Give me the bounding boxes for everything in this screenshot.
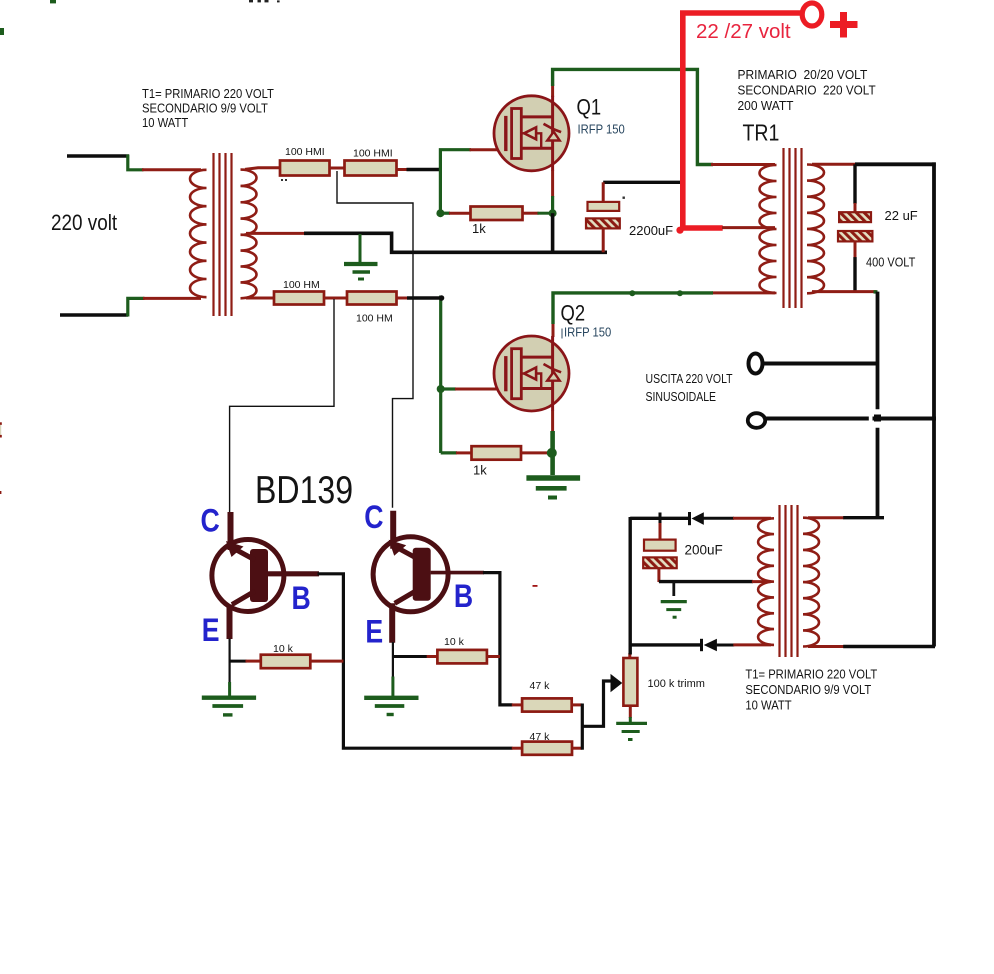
stray red dash — [533, 585, 538, 587]
wire T2 secondary bottom maroon — [808, 645, 844, 648]
note USCITA text — [646, 373, 733, 404]
capacitor C1 2200uF top wire black — [603, 181, 683, 184]
wire T2 primary bottom maroon — [733, 643, 771, 646]
svg-text:USCITA 220 VOLT: USCITA 220 VOLT — [646, 373, 733, 386]
wire input bottom black — [60, 313, 128, 317]
wire 22uF top black — [853, 164, 856, 204]
stray dot above cap — [623, 197, 625, 199]
wire TR1 primary top maroon — [711, 163, 775, 166]
svg-text:200uF: 200uF — [685, 543, 723, 558]
op mosfet Q1 symbol — [494, 96, 569, 171]
wire 22uF bottom black — [853, 257, 856, 292]
note T1 left text — [142, 86, 274, 130]
wire between R3 R4 — [324, 297, 347, 300]
svg-text:SECONDARIO 9/9 VOLT: SECONDARIO 9/9 VOLT — [142, 101, 268, 116]
wire Q4 base black — [483, 573, 513, 705]
svg-text:22 uF: 22 uF — [885, 208, 918, 223]
svg-text:T1= PRIMARIO 220 VOLT: T1= PRIMARIO 220 VOLT — [745, 667, 877, 682]
wire to T1 primary bottom maroon — [143, 297, 201, 300]
wire T2 center tap black — [659, 580, 753, 583]
transformer T2 primary winding — [758, 518, 774, 645]
label 220 volt — [51, 211, 117, 236]
label 400 VOLT — [866, 256, 915, 270]
svg-text:10 WATT: 10 WATT — [142, 115, 188, 130]
ground G6 trimmer — [616, 723, 647, 739]
resistor R9 47k — [522, 680, 572, 712]
stray mark top dot green — [50, 0, 56, 3]
capacitor C3 200uF tick black — [659, 513, 662, 525]
wire 1k2 right maroon — [521, 451, 548, 454]
wire Q3 emitter green stub — [228, 682, 231, 696]
node junction Q2 gate — [437, 385, 445, 393]
wire T1 sec bottom lead — [246, 297, 274, 300]
wire between R1 R2 — [330, 167, 345, 170]
transformer T1 secondary winding top — [241, 170, 257, 235]
stray mark left dot green — [0, 28, 4, 35]
wire T2 secondary bottom black — [843, 645, 935, 648]
wire TR1 secondary top black — [855, 162, 936, 166]
thin wire net A to Q2 BD139 collector — [337, 171, 413, 508]
capacitor C2 22uF plate1 hatched — [839, 212, 871, 222]
resistor R5 1k — [471, 207, 523, 237]
svg-text:PRIMARIO 20/20 VOLT: PRIMARIO 20/20 VOLT — [738, 68, 868, 82]
transformer T2 secondary winding — [803, 518, 819, 647]
wire T1 sec center tap maroon — [246, 232, 305, 235]
wire T2 top row black left — [630, 517, 688, 520]
capacitor C3 200uF plate2 hatched — [643, 557, 677, 568]
wire R4 right black — [407, 296, 442, 299]
transformer T2 core — [780, 505, 798, 657]
label 22 27 volt red — [696, 20, 791, 43]
note T2 ratings text — [745, 667, 877, 713]
svg-text:SECONDARIO 9/9 VOLT: SECONDARIO 9/9 VOLT — [745, 683, 871, 698]
wire D2 right black — [717, 644, 735, 647]
label B1 blue — [292, 581, 311, 617]
stray red bracket left edge — [0, 422, 2, 437]
wire 10k2 left black — [393, 655, 428, 658]
label E2 blue — [365, 614, 383, 650]
resistor R4 100 HM — [347, 292, 397, 325]
capacitor C1 2200uF plate2 hatched — [586, 218, 620, 228]
node junction R4 black — [439, 295, 445, 301]
svg-text:TR1: TR1 — [743, 120, 780, 146]
svg-text:200 WATT: 200 WATT — [738, 99, 795, 113]
wire T2 bottom row black left — [630, 643, 701, 646]
node junction Q1 gate-1k — [436, 209, 444, 217]
wire Q1 source black down — [551, 213, 555, 252]
wire Q2 drain maroon — [552, 323, 555, 338]
svg-text:BD139: BD139 — [255, 468, 353, 512]
svg-text:Q2: Q2 — [561, 301, 586, 326]
wire 1k2 left green corner — [441, 451, 457, 454]
svg-text:47 k: 47 k — [530, 680, 551, 692]
wire Q1 gate green — [440, 150, 471, 214]
wire 1k left maroon — [449, 212, 471, 215]
transformer T1 primary winding — [190, 170, 207, 297]
node red corner dot — [676, 227, 683, 234]
wire Q4 emitter black — [392, 642, 394, 678]
node junction Q2 source-1k — [547, 448, 557, 458]
transformer TR1 primary winding — [760, 165, 777, 293]
wire Q1 drain maroon — [551, 84, 554, 97]
resistor R7 10k — [261, 643, 311, 668]
wire 10k1 left black — [229, 660, 247, 663]
svg-text:B: B — [454, 578, 473, 614]
arrow trimmer wiper — [611, 674, 623, 692]
node green nub at TR1 sec bottom corner — [874, 290, 878, 293]
wire R2 right black — [407, 168, 443, 171]
svg-text:SECONDARIO 220 VOLT: SECONDARIO 220 VOLT — [738, 83, 877, 97]
wire Q1 source green — [551, 196, 554, 213]
svg-text:T1= PRIMARIO 220 VOLT: T1= PRIMARIO 220 VOLT — [142, 86, 274, 101]
transistor Q3 BD139 first — [212, 512, 319, 639]
ground G5 — [661, 602, 687, 618]
wire 47k2 right maroon — [572, 747, 582, 750]
wire Q3 base black — [318, 574, 513, 748]
capacitor C2 22uF bottom lead — [854, 241, 857, 258]
svg-text:E: E — [365, 614, 383, 650]
svg-text:220 volt: 220 volt — [51, 211, 117, 236]
wire 1k2 left maroon — [456, 451, 472, 454]
resistor R2 100 HMI — [345, 148, 397, 176]
svg-text:1k: 1k — [473, 463, 487, 478]
transistor Q4 BD139 second — [373, 511, 484, 643]
label E1 blue — [202, 613, 220, 649]
label Q1 — [577, 95, 602, 120]
diode D2 — [702, 639, 717, 651]
svg-text:400 VOLT: 400 VOLT — [866, 256, 915, 270]
capacitor C2 22uF plate2 hatched — [838, 231, 872, 241]
wire Q2 source green — [550, 431, 555, 475]
svg-text:10 k: 10 k — [273, 643, 294, 655]
wire TR1 secondary bottom maroon — [812, 290, 877, 293]
svg-text:1k: 1k — [472, 221, 486, 236]
wire D1 right black — [704, 517, 735, 520]
wire center tap rail black — [304, 233, 607, 252]
svg-text:100 k trimm: 100 k trimm — [648, 678, 705, 690]
capacitor C1 2200uF plate1 — [588, 202, 620, 211]
transformer T1 core — [214, 153, 232, 316]
capacitor C3 200uF bottom lead — [657, 568, 660, 582]
label Q2 — [561, 301, 586, 326]
svg-text:22 /27 volt: 22 /27 volt — [696, 20, 791, 43]
wire input bottom green corner — [128, 298, 145, 316]
wire Q1 gate maroon — [470, 148, 507, 151]
svg-text:100 HM: 100 HM — [356, 313, 393, 325]
resistor R6 1k — [472, 446, 522, 477]
resistor R8 10k — [437, 636, 487, 663]
capacitor C3 200uF plate1 — [644, 540, 676, 551]
terminal plus ring — [802, 3, 822, 26]
resistor R10 47k — [522, 731, 572, 755]
capacitor C2 22uF top lead — [854, 203, 857, 212]
wire TR1 center tap maroon — [722, 226, 775, 229]
wire Q4 emitter green stub — [391, 677, 394, 697]
ground G3 — [202, 698, 256, 715]
wire Q3 emitter black — [229, 639, 231, 684]
node junction dot b on drain wire — [677, 290, 683, 296]
ground G4 — [364, 698, 418, 715]
wire output 2 black with hop gap — [765, 417, 936, 421]
svg-text:10 WATT: 10 WATT — [745, 698, 791, 713]
svg-text:10 k: 10 k — [444, 636, 465, 648]
svg-text:Q1: Q1 — [577, 95, 602, 120]
terminal output 2 — [748, 413, 765, 428]
resistor RV1 100k trimmer body — [623, 658, 637, 706]
wire Q1 source maroon — [551, 170, 554, 197]
wire 47k junction vertical black — [581, 704, 584, 750]
label 100 k trimm — [648, 678, 705, 690]
wire 1k left green — [440, 212, 450, 215]
wire Q2 gate green stub — [441, 387, 456, 390]
label BD139 — [255, 468, 353, 512]
resistor R1 100 HMI — [280, 146, 330, 176]
label C2 blue — [364, 499, 383, 535]
ground G5 stub black — [672, 582, 675, 596]
transformer T1 secondary winding bottom — [241, 235, 257, 299]
wire T2 secondary top black — [843, 516, 884, 519]
resistor R3 100 HM — [274, 279, 324, 305]
transformer TR1 secondary winding — [807, 165, 824, 294]
wire R2 right maroon — [397, 168, 408, 171]
wire TR1 secondary top maroon — [812, 163, 856, 166]
stray dots under R1 — [281, 179, 287, 181]
wire 1k right maroon — [523, 212, 553, 215]
svg-text:100 HMI: 100 HMI — [353, 148, 393, 160]
wire trimmer bottom green stub — [629, 717, 632, 722]
ground G1 — [344, 264, 378, 279]
wire input top black — [67, 154, 129, 158]
wire output 1 black — [763, 362, 878, 366]
wire supply thick red — [683, 13, 807, 228]
ground G1 stub — [359, 234, 362, 262]
plus symbol — [830, 12, 858, 38]
thin wire net B to Q1 BD139 collector — [230, 299, 334, 512]
stray dots top — [249, 0, 280, 2]
svg-text:100 HMI: 100 HMI — [285, 146, 325, 158]
wire trimmer top maroon — [628, 653, 631, 658]
svg-text:2200uF: 2200uF — [629, 223, 673, 238]
wire trimmer wiper black — [582, 681, 612, 726]
svg-text:C: C — [364, 499, 383, 535]
wire 10k1 right maroon — [310, 660, 343, 663]
ground G2 Q2 source thick — [526, 478, 580, 498]
wire input top green corner — [128, 155, 144, 170]
wire Q2 gate vertical green — [439, 296, 442, 454]
wire T2 secondary top maroon — [808, 516, 844, 519]
wire Q2 gate maroon — [455, 388, 506, 391]
svg-text:100 HM: 100 HM — [283, 279, 320, 291]
wire 10k2 right maroon — [487, 655, 500, 658]
node junction Q1 source-1k — [549, 209, 557, 217]
label B2 blue — [454, 578, 473, 614]
wire T2 left vertical black — [629, 517, 632, 655]
capacitor C3 200uF top lead — [659, 523, 662, 540]
wire 47k1 left maroon — [512, 703, 522, 706]
wire right edge vertical black — [932, 162, 936, 646]
wire trimmer bottom maroon — [629, 706, 632, 718]
wire 10k1 left maroon — [246, 660, 261, 663]
wire Q2 drain to TR1 primary bottom green — [553, 293, 713, 324]
wire TR1 primary bottom maroon — [712, 291, 775, 294]
wire TR1 sec bottom to T2 vertical black — [876, 292, 880, 519]
svg-text:IRFP 150: IRFP 150 — [578, 122, 626, 137]
label TR1 — [743, 120, 780, 146]
note TR1 ratings text — [738, 68, 877, 113]
label 22 uF — [885, 208, 918, 223]
svg-text:IRFP 150: IRFP 150 — [564, 325, 612, 340]
svg-text:C: C — [201, 503, 220, 539]
wire 47k2 left maroon — [512, 747, 522, 750]
wire Q1 drain to TR1 primary top green — [553, 69, 713, 164]
label 200uF — [685, 543, 723, 558]
capacitor C1 2200uF bottom lead — [602, 228, 605, 252]
label C1 blue — [201, 503, 220, 539]
label 2200uF — [629, 223, 673, 238]
wire R4 right maroon — [397, 297, 409, 300]
svg-text:47 k: 47 k — [530, 731, 551, 743]
capacitor C1 2200uF top lead — [602, 182, 605, 203]
op mosfet Q2 symbol — [494, 336, 569, 411]
label Q2 IRFP 150 with cursor — [562, 325, 612, 340]
wire T2 center tap maroon — [752, 580, 771, 583]
wire Q2 source maroon — [551, 411, 554, 433]
diode D1 — [690, 512, 704, 525]
wire T1 sec top lead — [245, 168, 280, 170]
svg-text:E: E — [202, 613, 220, 649]
terminal output 1 — [749, 354, 763, 374]
wire T2 primary top maroon — [733, 517, 771, 520]
wire 10k2 left maroon — [427, 655, 438, 658]
transformer TR1 core — [784, 148, 802, 308]
svg-text:SINUSOIDALE: SINUSOIDALE — [646, 391, 717, 404]
label Q1 IRFP 150 — [578, 122, 626, 137]
svg-text:B: B — [292, 581, 311, 617]
stray red dot left edge — [0, 491, 1, 494]
node junction dot a on drain wire — [629, 290, 635, 296]
wire 47k1 right maroon — [572, 703, 583, 706]
wire to T1 primary top maroon — [142, 168, 201, 171]
